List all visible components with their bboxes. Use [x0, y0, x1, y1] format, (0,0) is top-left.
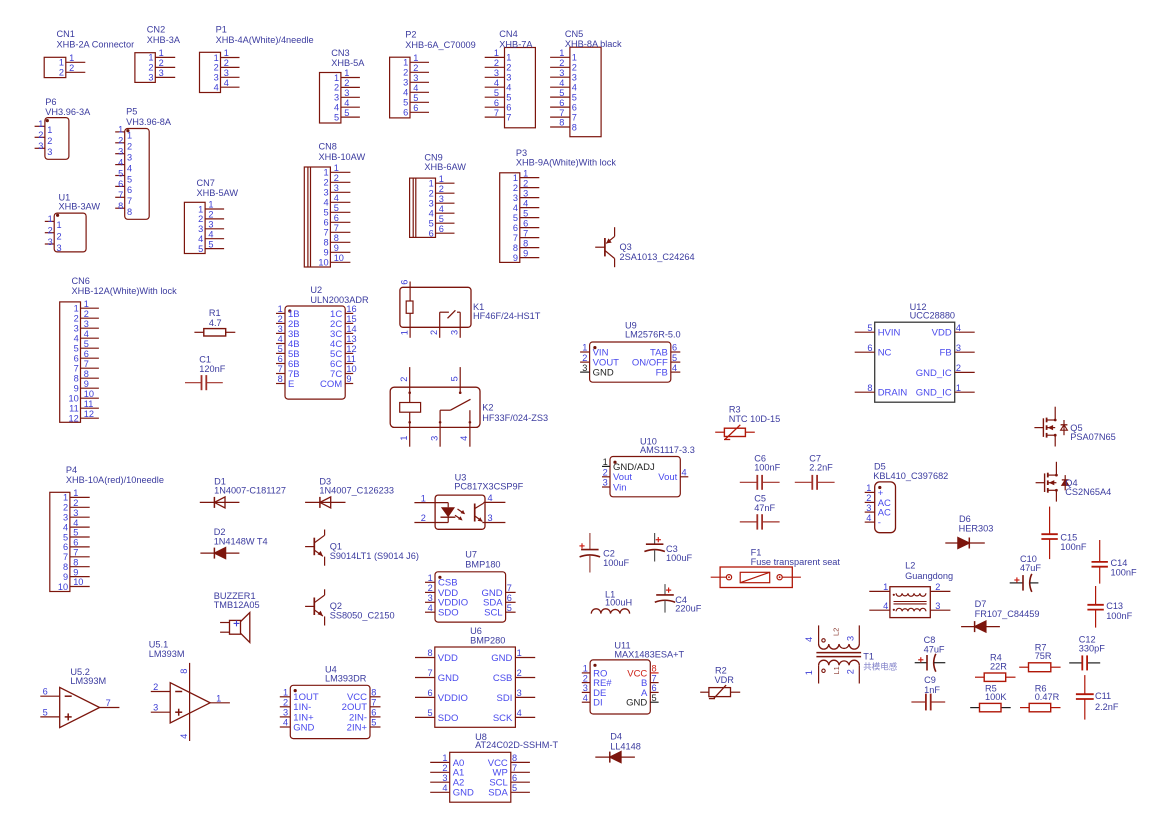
svg-text:7: 7: [507, 583, 512, 593]
svg-text:4: 4: [84, 329, 89, 339]
svg-text:4: 4: [73, 518, 78, 528]
connector CN4 XHB-7A: [485, 29, 536, 128]
svg-text:8: 8: [118, 201, 123, 211]
svg-text:LL4148: LL4148: [610, 741, 641, 751]
svg-text:75R: 75R: [1035, 651, 1052, 661]
svg-text:3: 3: [57, 243, 62, 253]
capacitor C13 100nF: [1087, 586, 1132, 628]
svg-text:3: 3: [450, 330, 460, 335]
svg-text:XHB-2A Connector: XHB-2A Connector: [57, 39, 135, 49]
svg-text:8: 8: [63, 562, 68, 572]
svg-text:1nF: 1nF: [924, 685, 940, 695]
svg-text:3: 3: [413, 73, 418, 83]
svg-text:1: 1: [442, 753, 447, 763]
svg-text:1: 1: [59, 58, 64, 68]
diode D4 LL4148: [595, 732, 641, 763]
svg-text:4: 4: [572, 83, 577, 93]
svg-text:DRAIN: DRAIN: [878, 388, 908, 399]
svg-text:6: 6: [74, 354, 79, 364]
svg-text:3: 3: [513, 193, 518, 203]
svg-text:1: 1: [148, 53, 153, 63]
svg-text:1N4007_C126233: 1N4007_C126233: [319, 486, 394, 496]
svg-text:L2: L2: [905, 560, 915, 570]
svg-text:5: 5: [208, 239, 213, 249]
svg-text:4.7: 4.7: [209, 318, 222, 328]
svg-text:2: 2: [148, 63, 153, 73]
svg-text:T1: T1: [863, 652, 874, 662]
connector CN2 XHB-3A: [135, 24, 181, 82]
svg-text:GND: GND: [293, 722, 314, 733]
svg-text:7: 7: [572, 112, 577, 122]
svg-text:8: 8: [371, 688, 376, 698]
svg-text:9: 9: [346, 374, 351, 384]
svg-text:1: 1: [38, 119, 43, 129]
svg-text:Vout: Vout: [658, 472, 677, 483]
svg-text:2: 2: [559, 58, 564, 68]
svg-text:1: 1: [73, 488, 78, 498]
svg-text:PSA07N65: PSA07N65: [1070, 432, 1115, 442]
svg-text:100uF: 100uF: [603, 558, 629, 568]
svg-text:1: 1: [429, 179, 434, 189]
svg-text:6: 6: [334, 213, 339, 223]
connector P5 VH3.96-8A: [115, 107, 172, 220]
svg-text:3: 3: [344, 88, 349, 98]
svg-text:7: 7: [512, 763, 517, 773]
svg-text:7: 7: [84, 359, 89, 369]
svg-text:47uF: 47uF: [924, 644, 945, 654]
svg-text:3: 3: [48, 237, 53, 247]
svg-text:3: 3: [582, 363, 587, 373]
svg-text:1: 1: [278, 304, 283, 314]
svg-text:2: 2: [208, 210, 213, 220]
svg-text:7: 7: [63, 552, 68, 562]
svg-text:2: 2: [439, 184, 444, 194]
svg-text:6: 6: [427, 688, 432, 698]
svg-text:100nF: 100nF: [1060, 542, 1086, 552]
svg-text:1: 1: [506, 53, 511, 63]
svg-text:4: 4: [506, 83, 511, 93]
svg-text:C9: C9: [924, 675, 936, 685]
svg-text:4: 4: [459, 436, 469, 441]
svg-text:330pF: 330pF: [1079, 644, 1105, 654]
svg-text:4: 4: [523, 198, 528, 208]
svg-text:5: 5: [43, 707, 48, 717]
svg-text:4: 4: [682, 468, 687, 478]
svg-text:4: 4: [63, 522, 68, 532]
svg-text:4: 4: [198, 234, 203, 244]
svg-text:3: 3: [159, 68, 164, 78]
svg-text:2: 2: [47, 136, 52, 146]
svg-text:4: 4: [334, 193, 339, 203]
svg-text:1: 1: [439, 174, 444, 184]
svg-text:1: 1: [344, 68, 349, 78]
svg-text:VH3.96-3A: VH3.96-3A: [45, 107, 91, 117]
connector CN8 XHB-10AW: [304, 142, 365, 268]
svg-text:1: 1: [283, 688, 288, 698]
svg-text:9: 9: [523, 248, 528, 258]
svg-text:3: 3: [523, 188, 528, 198]
svg-text:1: 1: [224, 48, 229, 58]
svg-text:Fuse transparent seat: Fuse transparent seat: [751, 557, 841, 567]
svg-text:UCC28880: UCC28880: [910, 310, 955, 320]
svg-text:MAX1483ESA+T: MAX1483ESA+T: [614, 650, 684, 660]
svg-text:1: 1: [559, 48, 564, 58]
svg-text:12: 12: [84, 409, 94, 419]
svg-text:2: 2: [344, 78, 349, 88]
optocoupler U3 PC817: [414, 472, 523, 529]
svg-text:1: 1: [69, 53, 74, 63]
svg-text:P5: P5: [126, 107, 137, 117]
svg-text:SDO: SDO: [438, 608, 459, 619]
connector CN3 XHB-5A: [320, 48, 366, 123]
svg-text:2: 2: [572, 63, 577, 73]
fuse F1: [711, 548, 841, 588]
svg-text:4: 4: [74, 334, 79, 344]
svg-text:8: 8: [127, 207, 132, 217]
svg-text:P2: P2: [405, 30, 416, 40]
svg-text:TMB12A05: TMB12A05: [214, 600, 260, 610]
svg-text:6: 6: [43, 687, 48, 697]
IC U7 BMP180: [425, 549, 516, 622]
op-amp U5.1 LM393M: [149, 640, 230, 741]
svg-text:VDR: VDR: [715, 675, 735, 685]
svg-text:7: 7: [73, 548, 78, 558]
svg-text:5: 5: [513, 213, 518, 223]
svg-text:4: 4: [224, 78, 229, 88]
svg-text:C13: C13: [1106, 601, 1123, 611]
svg-text:11: 11: [346, 354, 356, 364]
svg-text:3: 3: [442, 773, 447, 783]
svg-text:2: 2: [506, 63, 511, 73]
svg-text:3: 3: [428, 593, 433, 603]
svg-text:2: 2: [956, 363, 961, 373]
capacitor C14 100nF: [1092, 540, 1137, 584]
svg-text:100K: 100K: [985, 692, 1007, 702]
svg-text:7: 7: [427, 668, 432, 678]
buzzer BUZZER1 TMB12A05: [214, 591, 260, 643]
svg-text:5: 5: [403, 98, 408, 108]
svg-text:4: 4: [208, 229, 213, 239]
IC U4 LM393DR: [280, 665, 381, 739]
svg-text:1: 1: [956, 383, 961, 393]
svg-text:XHB-5A: XHB-5A: [331, 58, 365, 68]
svg-text:11: 11: [84, 399, 94, 409]
svg-text:0.47R: 0.47R: [1035, 692, 1060, 702]
IC U2 ULN2003ADR: [276, 285, 369, 399]
svg-text:HF33F/024-ZS3: HF33F/024-ZS3: [482, 413, 548, 423]
diode D1 1N4007: [200, 476, 286, 508]
svg-text:9: 9: [513, 253, 518, 263]
svg-text:100nF: 100nF: [754, 463, 780, 473]
svg-text:AMS1117-3.3: AMS1117-3.3: [640, 445, 695, 455]
svg-text:4: 4: [883, 601, 888, 611]
svg-text:2: 2: [421, 513, 426, 523]
svg-text:HER303: HER303: [959, 523, 994, 533]
resistor R4 22R: [975, 653, 1016, 682]
svg-text:2: 2: [38, 130, 43, 140]
svg-text:U7: U7: [465, 549, 477, 559]
svg-text:D7: D7: [975, 599, 987, 609]
svg-text:4: 4: [956, 323, 961, 333]
svg-text:3: 3: [403, 78, 408, 88]
svg-text:8: 8: [323, 238, 328, 248]
svg-text:7: 7: [523, 228, 528, 238]
svg-text:1: 1: [583, 664, 588, 674]
connector CN9 XHB-6AW: [410, 153, 467, 239]
svg-text:9: 9: [63, 572, 68, 582]
svg-text:1: 1: [603, 457, 608, 467]
svg-text:2: 2: [442, 763, 447, 773]
IC U10 AMS1117-3.3: [602, 436, 695, 497]
svg-text:10: 10: [346, 364, 356, 374]
svg-text:8: 8: [559, 118, 564, 128]
svg-text:2: 2: [159, 58, 164, 68]
svg-text:SCK: SCK: [493, 713, 513, 724]
svg-text:XHB-6AW: XHB-6AW: [424, 162, 466, 172]
transformer T1 common-mode choke: [804, 625, 898, 683]
svg-text:4: 4: [283, 718, 288, 728]
svg-text:3: 3: [517, 688, 522, 698]
svg-text:6: 6: [512, 773, 517, 783]
svg-text:Vin: Vin: [613, 482, 627, 493]
svg-text:4: 4: [488, 493, 493, 503]
svg-text:4: 4: [513, 203, 518, 213]
svg-text:3: 3: [84, 319, 89, 329]
svg-text:S9014LT1 (S9014 J6): S9014LT1 (S9014 J6): [330, 551, 419, 561]
svg-text:GND: GND: [491, 653, 512, 664]
svg-text:1: 1: [323, 168, 328, 178]
svg-text:SDI: SDI: [497, 693, 513, 704]
svg-text:6: 6: [652, 683, 657, 693]
svg-text:GND: GND: [453, 788, 474, 799]
transistor Q4 CS2N65A4: [1036, 462, 1112, 502]
svg-text:VDD: VDD: [438, 653, 458, 664]
svg-text:1: 1: [494, 48, 499, 58]
svg-text:4: 4: [804, 637, 814, 642]
svg-text:7: 7: [127, 196, 132, 206]
svg-text:PC817X3CSP9F: PC817X3CSP9F: [454, 481, 523, 491]
svg-text:2: 2: [935, 582, 940, 592]
relay K2 HF33F/024-ZS3: [390, 367, 548, 447]
svg-text:1N4148W T4: 1N4148W T4: [214, 536, 268, 546]
svg-text:SCL: SCL: [484, 608, 502, 619]
svg-text:6: 6: [84, 349, 89, 359]
svg-text:7: 7: [278, 364, 283, 374]
svg-text:5: 5: [334, 112, 339, 122]
svg-text:1: 1: [572, 53, 577, 63]
svg-text:4: 4: [334, 103, 339, 113]
svg-text:9: 9: [334, 243, 339, 253]
svg-text:4: 4: [413, 83, 418, 93]
svg-text:D5: D5: [874, 462, 886, 472]
capacitor C12 330pF: [1069, 634, 1105, 670]
svg-text:XHB-12A(White)With lock: XHB-12A(White)With lock: [72, 286, 178, 296]
svg-text:SDO: SDO: [438, 713, 459, 724]
IC U12 UCC28880: [855, 302, 975, 402]
svg-text:2: 2: [846, 669, 856, 674]
capacitor C2 100uF: [579, 533, 629, 573]
svg-text:7: 7: [506, 112, 511, 122]
svg-text:NC: NC: [878, 348, 892, 359]
svg-text:6: 6: [63, 542, 68, 552]
inductor L1 100uH: [591, 590, 632, 614]
svg-text:3: 3: [63, 513, 68, 523]
svg-text:1: 1: [118, 125, 123, 135]
svg-text:14: 14: [346, 324, 356, 334]
svg-text:7: 7: [323, 228, 328, 238]
svg-text:13: 13: [346, 334, 356, 344]
svg-text:GND: GND: [438, 673, 459, 684]
svg-text:R2: R2: [715, 665, 727, 675]
svg-text:CN3: CN3: [331, 48, 349, 58]
svg-text:6: 6: [494, 98, 499, 108]
svg-text:3: 3: [846, 636, 856, 641]
resistor R6 0.47R: [1020, 683, 1061, 712]
svg-text:1: 1: [198, 204, 203, 214]
svg-text:XHB-10A(red)/10needle: XHB-10A(red)/10needle: [66, 475, 164, 485]
svg-text:COM: COM: [320, 379, 342, 390]
svg-text:2: 2: [583, 673, 588, 683]
svg-text:7: 7: [652, 673, 657, 683]
svg-text:7: 7: [106, 698, 111, 708]
svg-text:XHB-7A: XHB-7A: [499, 39, 533, 49]
svg-text:5: 5: [652, 693, 657, 703]
svg-text:2.2nF: 2.2nF: [809, 463, 833, 473]
svg-text:5: 5: [427, 708, 432, 718]
svg-text:SDA: SDA: [488, 788, 508, 799]
svg-text:4: 4: [517, 708, 522, 718]
svg-text:U2: U2: [310, 285, 322, 295]
svg-text:P3: P3: [516, 148, 527, 158]
svg-text:GND_IC: GND_IC: [916, 388, 952, 399]
resistor R1 4.7: [194, 308, 235, 336]
svg-text:4: 4: [127, 163, 132, 173]
svg-text:CN7: CN7: [197, 178, 215, 188]
svg-text:6: 6: [523, 218, 528, 228]
svg-text:1: 1: [334, 163, 339, 173]
svg-text:CN6: CN6: [72, 276, 90, 286]
svg-text:1: 1: [216, 693, 221, 703]
svg-text:4: 4: [278, 334, 283, 344]
svg-text:2: 2: [523, 178, 528, 188]
svg-text:XHB-9A(White)With lock: XHB-9A(White)With lock: [516, 157, 616, 167]
svg-text:3: 3: [224, 68, 229, 78]
svg-text:6: 6: [399, 280, 409, 285]
svg-text:1: 1: [513, 173, 518, 183]
svg-text:8: 8: [278, 374, 283, 384]
svg-text:2: 2: [428, 583, 433, 593]
svg-text:4: 4: [442, 783, 447, 793]
svg-text:3: 3: [559, 68, 564, 78]
svg-text:K2: K2: [482, 402, 493, 412]
svg-text:2: 2: [278, 314, 283, 324]
svg-text:6: 6: [572, 102, 577, 112]
svg-text:3: 3: [506, 73, 511, 83]
svg-text:CN8: CN8: [319, 142, 337, 152]
svg-text:4: 4: [403, 88, 408, 98]
diode D2 1N4148W: [200, 527, 267, 558]
svg-text:LM393DR: LM393DR: [325, 674, 367, 684]
svg-text:4: 4: [118, 157, 123, 167]
svg-text:8: 8: [334, 233, 339, 243]
svg-text:6: 6: [278, 354, 283, 364]
svg-text:10: 10: [58, 582, 68, 592]
svg-text:2: 2: [84, 309, 89, 319]
diode D3 1N4007: [305, 476, 394, 508]
svg-text:3: 3: [74, 324, 79, 334]
svg-text:3: 3: [430, 436, 440, 441]
svg-text:2: 2: [866, 493, 871, 503]
svg-text:C11: C11: [1095, 691, 1111, 701]
capacitor C1 120nF: [185, 355, 226, 391]
varistor R2 VDR: [700, 665, 740, 698]
thermistor R3 NTC 10D-15: [715, 404, 780, 439]
relay K1 HF46F/24-HS1T: [399, 280, 540, 338]
resistor R5 100K: [970, 683, 1011, 712]
connector CN1 XHB-2A: [44, 29, 134, 78]
svg-text:47uF: 47uF: [1020, 563, 1041, 573]
svg-text:1: 1: [403, 58, 408, 68]
capacitor C11 2.2nF: [1076, 675, 1119, 720]
connector U1 XHB-3AW: [45, 193, 101, 253]
svg-text:7: 7: [494, 108, 499, 118]
svg-text:6: 6: [506, 103, 511, 113]
svg-text:1: 1: [428, 573, 433, 583]
IC U9 LM2576R-5.0: [580, 321, 681, 383]
svg-text:2: 2: [603, 468, 608, 478]
svg-text:AT24C02D-SSHM-T: AT24C02D-SSHM-T: [475, 740, 558, 750]
svg-text:1: 1: [57, 220, 62, 230]
svg-text:XHB-5AW: XHB-5AW: [197, 188, 239, 198]
svg-text:6: 6: [118, 179, 123, 189]
svg-text:1: 1: [413, 53, 418, 63]
svg-text:1: 1: [127, 131, 132, 141]
svg-text:5: 5: [371, 718, 376, 728]
svg-text:4: 4: [323, 198, 328, 208]
svg-text:3: 3: [323, 188, 328, 198]
svg-text:5: 5: [278, 344, 283, 354]
svg-text:2: 2: [48, 226, 53, 236]
svg-text:KBL410_C397682: KBL410_C397682: [873, 471, 948, 481]
svg-text:2SA1013_C24264: 2SA1013_C24264: [620, 252, 695, 262]
capacitor C5 47nF: [740, 494, 780, 530]
svg-text:9: 9: [84, 379, 89, 389]
resistor R7 75R: [1019, 643, 1060, 672]
svg-text:220uF: 220uF: [675, 604, 701, 614]
svg-text:VDDIO: VDDIO: [438, 693, 468, 704]
svg-text:1: 1: [523, 168, 528, 178]
svg-text:5: 5: [867, 323, 872, 333]
svg-text:GND: GND: [593, 368, 614, 379]
svg-text:5: 5: [198, 244, 203, 254]
inductor L2 Guangdong: [869, 560, 953, 617]
svg-text:8: 8: [73, 557, 78, 567]
svg-text:100uH: 100uH: [605, 597, 632, 607]
svg-text:2: 2: [399, 377, 409, 382]
transistor Q2 SS8050: [305, 589, 394, 625]
svg-text:4: 4: [439, 204, 444, 214]
capacitor C7 2.2nF: [795, 453, 835, 490]
svg-text:7: 7: [559, 108, 564, 118]
svg-text:D6: D6: [959, 514, 971, 524]
svg-text:GND_IC: GND_IC: [916, 368, 952, 379]
capacitor C10 47uF: [1010, 554, 1042, 592]
svg-text:3: 3: [572, 73, 577, 83]
svg-text:5: 5: [344, 108, 349, 118]
svg-text:3: 3: [429, 199, 434, 209]
svg-text:3: 3: [439, 194, 444, 204]
svg-text:D4: D4: [610, 732, 622, 742]
